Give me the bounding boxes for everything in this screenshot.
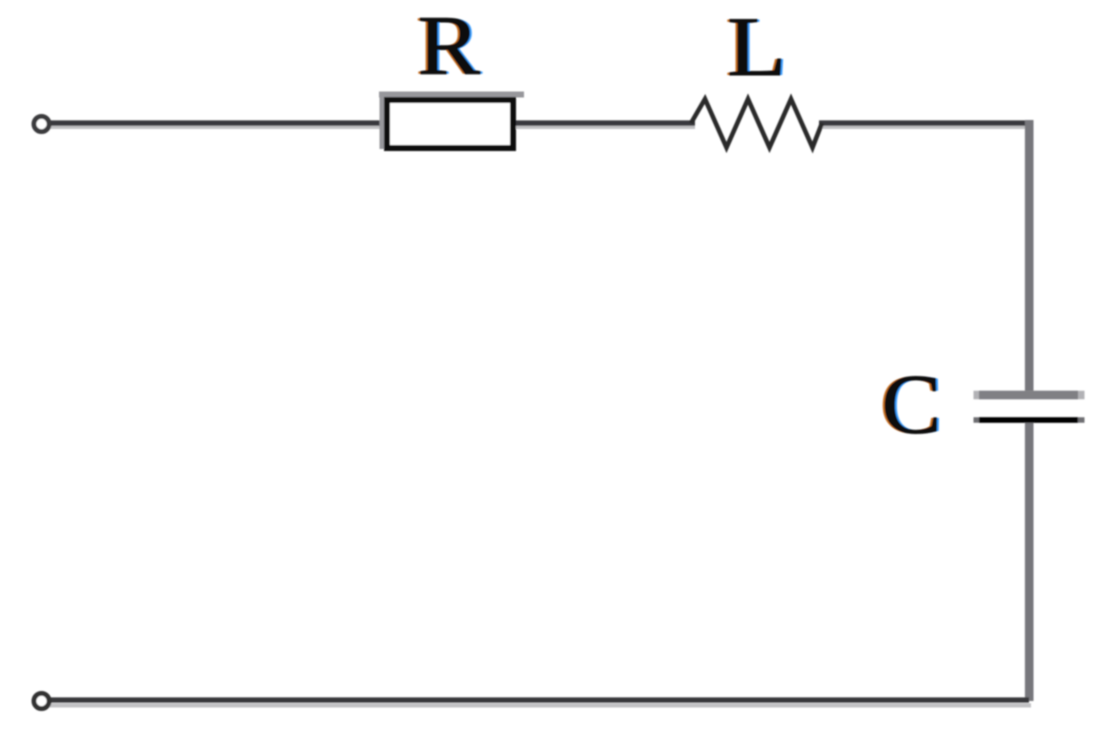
capacitor C1 bottom plate endcaps: [974, 417, 1085, 422]
resistor R1: [387, 100, 513, 148]
resistor R1 shadow inner-right: [507, 100, 512, 146]
resistor R1 shadow top: [379, 92, 524, 98]
wire right vertical lower: [1025, 420, 1034, 701]
svg-text:R: R: [418, 0, 481, 93]
wire top shadow: [48, 125, 388, 129]
wire bottom shadow: [48, 703, 1031, 707]
label L: [725, 0, 790, 94]
wire top-left: [48, 120, 388, 125]
inductor L1 zigzag: [691, 99, 822, 148]
svg-text:L: L: [727, 0, 787, 94]
capacitor C1 bottom plate: [979, 417, 1078, 422]
terminal bottom-left: [34, 693, 49, 708]
capacitor C1 top plate: [979, 391, 1078, 399]
label C: [879, 358, 944, 452]
wire inductor-to-corner: [819, 120, 1029, 125]
svg-text:C: C: [882, 358, 942, 452]
terminal top-left: [34, 116, 49, 131]
wire resistor-to-inductor: [513, 120, 695, 125]
resistor R1 shadow left: [380, 92, 385, 149]
capacitor C1 top plate endcaps: [974, 391, 1085, 399]
wire right vertical upper: [1025, 120, 1034, 395]
wire bottom: [48, 697, 1029, 702]
label R: [415, 0, 483, 93]
